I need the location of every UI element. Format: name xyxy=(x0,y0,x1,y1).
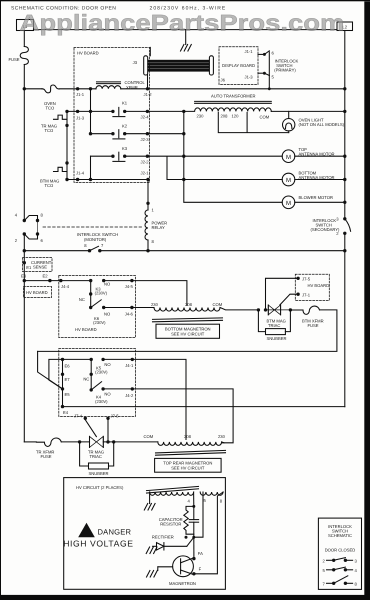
ground chassis at top xyxy=(181,30,192,51)
wire K3 row left xyxy=(91,155,113,157)
rectifier diode xyxy=(152,535,194,550)
thermal cutout TR MAG TCO chain top junction xyxy=(65,110,68,113)
wire row E3 E2 to J4-4 xyxy=(24,280,61,282)
junction xyxy=(89,306,92,309)
switch schematic contact 2-3 xyxy=(323,558,358,564)
wire control xfmr to J1-2 xyxy=(121,88,148,90)
svg-text:J7-1: J7-1 xyxy=(302,293,311,298)
wire K5 NO to pin J4-1 xyxy=(103,358,132,360)
wire J1-2 row to L2 rail xyxy=(148,88,345,90)
svg-text:NC: NC xyxy=(79,297,85,302)
wire J4-1 to 208 tap of top xfmr xyxy=(132,359,186,439)
wire strap to E5 xyxy=(38,351,63,389)
junction xyxy=(182,132,185,135)
junction xyxy=(123,110,126,113)
svg-text:(PRIMARY): (PRIMARY) xyxy=(274,68,296,73)
box HV CIRCUIT xyxy=(64,478,226,590)
junction xyxy=(344,582,347,585)
junction xyxy=(65,161,68,164)
pin J2-3 xyxy=(141,132,150,142)
svg-text:SEE HV CIRCUIT: SEE HV CIRCUIT xyxy=(171,466,205,471)
terminal E3 xyxy=(21,273,27,282)
svg-text:DISPLAY BOARD: DISPLAY BOARD xyxy=(222,63,255,68)
interlock switch primary xyxy=(263,51,299,80)
svg-text:MAGNETRON: MAGNETRON xyxy=(169,581,196,586)
svg-text:NO: NO xyxy=(104,312,111,317)
transformer top rear magnetron primary xyxy=(144,434,226,455)
switch schematic contact 7-8 open xyxy=(323,576,358,587)
svg-text:FUSE: FUSE xyxy=(41,454,52,459)
terminal E1 xyxy=(23,261,32,270)
wire L2 rail lower xyxy=(344,233,346,406)
wire J2-2 row to bus and jog xyxy=(147,156,183,179)
wire J1-1 to control xfmr xyxy=(78,88,96,90)
wire K3 NO to pin J4-5 xyxy=(104,280,132,282)
junction xyxy=(264,308,267,311)
svg-text:AUTO TRANSFORMER: AUTO TRANSFORMER xyxy=(211,93,255,98)
svg-text:FA: FA xyxy=(198,551,203,556)
svg-text:HV BOARD: HV BOARD xyxy=(75,327,97,332)
triac BTM MAG TRIAC xyxy=(257,305,292,328)
terminal E2 xyxy=(43,273,52,282)
junction xyxy=(101,358,104,361)
relay contact K5 changeover xyxy=(83,358,111,404)
switch monitor contact xyxy=(84,243,104,253)
svg-text:230: 230 xyxy=(151,302,159,307)
junction K3 feeder xyxy=(89,178,92,181)
svg-text:E2: E2 xyxy=(43,273,49,278)
svg-text:230: 230 xyxy=(218,434,226,439)
svg-text:NO: NO xyxy=(104,281,111,286)
wire display J1-3 to primary interlock xyxy=(258,72,264,74)
wire K1 row left xyxy=(67,110,113,112)
wire L1 rail current sense to xfmr fuse row xyxy=(23,281,25,442)
wire E column xyxy=(62,359,64,406)
svg-text:SNUBBER: SNUBBER xyxy=(89,471,109,476)
wire fuse to U turn down xyxy=(38,310,337,352)
switch schematic contact 5-4 xyxy=(323,567,358,573)
svg-text:SCHEMATIC: SCHEMATIC xyxy=(328,533,352,538)
svg-text:E5: E5 xyxy=(65,392,71,397)
terminal E4 xyxy=(61,405,69,415)
junction bus at K1 row xyxy=(182,110,185,113)
svg-text:NC: NC xyxy=(83,376,89,381)
wire J7-5 to fuse row xyxy=(107,418,109,442)
junction xyxy=(343,178,346,181)
wire F loop to filament 8 xyxy=(194,492,223,574)
svg-text:J4-2: J4-2 xyxy=(125,393,134,398)
wire triac to xfmr COM xyxy=(103,441,158,443)
svg-text:120: 120 xyxy=(232,114,240,119)
svg-text:COM: COM xyxy=(144,434,154,439)
pin J2-4 xyxy=(141,110,150,120)
svg-text:TRIAC: TRIAC xyxy=(90,454,102,459)
svg-text:J3: J3 xyxy=(133,60,138,65)
svg-text:J7-5: J7-5 xyxy=(302,277,311,282)
snubber network btm xyxy=(258,310,290,341)
wire J4-4 to K3 contact xyxy=(61,280,91,282)
snubber network tr xyxy=(80,442,114,476)
svg-text:208: 208 xyxy=(185,302,193,307)
transformer control XFMR primary xyxy=(96,80,145,90)
terminal FA xyxy=(192,551,203,560)
terminal E6 xyxy=(61,358,70,369)
pin J4-5 xyxy=(125,279,134,289)
node L2 xyxy=(337,22,353,31)
pin J1-3 (HV board) xyxy=(76,110,85,121)
wire L1 rail to J1-1 row xyxy=(23,65,25,89)
svg-text:AppliancePartsPros.com: AppliancePartsPros.com xyxy=(20,9,345,35)
wire K6 NO to pin J4-6 xyxy=(104,307,132,309)
junction xyxy=(106,440,109,443)
ribbon cable J3 to J6 xyxy=(148,60,210,72)
svg-text:230: 230 xyxy=(197,114,205,119)
thermal cutout TR MAG TCO xyxy=(41,111,67,133)
wire feeder drop J1-1 row to K1 K2 rows xyxy=(90,89,92,134)
board HV BOARD label box left xyxy=(24,287,52,298)
junction xyxy=(101,387,104,390)
junction xyxy=(343,249,346,252)
svg-text:J2-2: J2-2 xyxy=(141,159,150,164)
svg-text:NO: NO xyxy=(104,392,111,397)
junction xyxy=(343,201,346,204)
svg-text:J4-1: J4-1 xyxy=(125,363,134,368)
wire J2-3 to bus xyxy=(147,133,183,135)
svg-text:COM: COM xyxy=(260,114,270,119)
svg-text:HV BOARD: HV BOARD xyxy=(26,290,48,295)
svg-text:TCO: TCO xyxy=(45,183,55,188)
svg-text:TCO: TCO xyxy=(45,128,55,133)
board HV BOARD (top) xyxy=(74,47,150,182)
wire J7-5 to triac anode xyxy=(266,278,299,310)
svg-text:M: M xyxy=(286,154,291,161)
svg-text:K1: K1 xyxy=(122,100,128,105)
junction xyxy=(123,132,126,135)
ground HV secondary xyxy=(144,492,155,510)
svg-text:J2-1: J2-1 xyxy=(141,170,150,175)
svg-text:(230V): (230V) xyxy=(93,320,106,325)
svg-text:SNUBBER: SNUBBER xyxy=(267,336,287,341)
thermal cutout OVEN TCO xyxy=(42,85,59,110)
ground rectifier xyxy=(146,547,157,554)
transformer bottom magnetron primary xyxy=(151,302,223,322)
svg-text:ANTENNA MOTOR: ANTENNA MOTOR xyxy=(299,151,335,156)
wire J7-4 gate to triac xyxy=(85,420,96,437)
pin J4-2 xyxy=(125,387,134,398)
junction xyxy=(89,292,92,295)
junction xyxy=(289,308,292,311)
interlock switch secondary xyxy=(311,216,351,236)
relay contact K3 xyxy=(111,146,128,162)
junction xyxy=(78,440,81,443)
junction xyxy=(344,559,347,562)
junction xyxy=(343,232,346,235)
wire power relay drop xyxy=(147,180,149,211)
board HV BOARD (lower K5 K4) xyxy=(59,349,136,417)
svg-text:E3: E3 xyxy=(21,273,27,278)
interlock switch monitor xyxy=(15,213,119,243)
junction xyxy=(332,568,335,571)
pin J7-5 top xyxy=(106,414,119,420)
wire J1-4 row xyxy=(67,179,148,181)
junction feeder at x90.5 xyxy=(89,87,92,90)
junction xyxy=(90,388,93,391)
svg-text:BLOWER MOTOR: BLOWER MOTOR xyxy=(299,195,333,200)
junction L2 rail at row 88 xyxy=(343,87,346,90)
junction xyxy=(112,440,115,443)
wire K1 to pin J2-4 xyxy=(125,110,148,112)
wire row to oven tco xyxy=(24,88,42,90)
svg-text:HV BOARD: HV BOARD xyxy=(308,283,330,288)
wire bottom antenna row xyxy=(184,179,282,181)
pin J7-1 btm xyxy=(296,293,310,298)
wire top rail L1 to L2 xyxy=(34,29,338,31)
wire E4 row to L2 rail corner xyxy=(63,406,345,408)
pin J4-1 xyxy=(125,358,134,369)
wire J2-4 to xfmr bus xyxy=(147,110,183,112)
svg-text:FUSE: FUSE xyxy=(308,323,319,328)
junction xyxy=(98,249,101,252)
node L1 xyxy=(17,20,34,31)
junction xyxy=(102,306,105,309)
wire filament 5 lead xyxy=(194,492,203,537)
svg-text:NO: NO xyxy=(104,362,111,367)
wire blower row right xyxy=(295,201,345,203)
svg-text:E7: E7 xyxy=(65,377,71,382)
pin J1-4 xyxy=(76,170,85,181)
wire E6 jumper strap xyxy=(49,359,63,389)
svg-text:TRIAC: TRIAC xyxy=(268,323,280,328)
pin J4-6 xyxy=(125,306,134,317)
junction xyxy=(182,178,185,181)
svg-text:J4-4: J4-4 xyxy=(61,284,70,289)
wire J4-6 to bottom xfmr 230 end xyxy=(132,307,154,309)
svg-text:J4-6: J4-6 xyxy=(125,312,134,317)
motor M blower xyxy=(282,195,333,208)
wire node to magnetron FA xyxy=(193,537,195,558)
svg-text:208: 208 xyxy=(221,114,229,119)
wire K2 row left xyxy=(91,133,113,135)
box interlock switch schematic xyxy=(318,518,361,589)
capacitor HV xyxy=(159,506,199,537)
junction xyxy=(102,279,105,282)
node J1-2 xyxy=(144,87,153,97)
svg-text:M: M xyxy=(286,200,291,207)
warning danger high voltage xyxy=(63,523,133,549)
junction K1 row feeder xyxy=(89,110,92,113)
board HV BOARD (middle K3 K6) xyxy=(59,276,136,338)
svg-text:(MONITOR): (MONITOR) xyxy=(84,237,107,242)
pin J2-1 xyxy=(141,170,150,181)
svg-text:J1-1: J1-1 xyxy=(76,92,85,97)
wire J4-5 to 208 tap of bottom xfmr xyxy=(132,281,187,306)
svg-text:E6: E6 xyxy=(65,364,71,369)
mechanical linkage dashed xyxy=(43,226,142,228)
junction xyxy=(90,373,93,376)
svg-text:(NOT ON ALL MODELS): (NOT ON ALL MODELS) xyxy=(299,122,345,127)
junction xyxy=(332,559,335,562)
wire fuse to triac xyxy=(61,441,89,443)
fuse F1 xyxy=(9,47,29,65)
connector J6 bracket xyxy=(209,56,213,75)
svg-text:DOOR CLOSED: DOOR CLOSED xyxy=(325,548,356,553)
junction xyxy=(343,110,346,113)
svg-text:J6: J6 xyxy=(221,78,226,83)
pin J1-1 (HV board) xyxy=(76,87,85,97)
junction xyxy=(332,582,335,585)
terminal F xyxy=(192,567,201,576)
magnetron V1 xyxy=(158,556,196,586)
svg-text:SENSE: SENSE xyxy=(33,264,47,269)
relay coil POWER RELAY xyxy=(145,202,167,244)
resistor bleed xyxy=(184,506,194,538)
wire bottom xfmr COM to triac row xyxy=(220,308,258,310)
wire K2 to pin J2-3 xyxy=(125,133,148,135)
board HV BOARD (btm triac driver) xyxy=(295,274,329,300)
wire J4-2 to 230 end of top xfmr xyxy=(132,389,233,443)
ground magnetron xyxy=(147,567,158,577)
svg-text:J2-3: J2-3 xyxy=(141,137,150,142)
wire J1-2 stub to ribbon J3 xyxy=(147,75,149,89)
junction xyxy=(23,232,26,235)
svg-text:E4: E4 xyxy=(63,410,69,415)
svg-text:J1-3: J1-3 xyxy=(76,115,85,120)
svg-text:J1-2: J1-2 xyxy=(144,92,153,97)
svg-text:E1: E1 xyxy=(26,265,32,270)
wire L2 rail upper xyxy=(344,31,346,219)
junction xyxy=(36,219,39,222)
display board U2 xyxy=(219,47,258,85)
wire oven tco to J1-1 xyxy=(59,88,77,90)
svg-text:K3: K3 xyxy=(122,146,128,151)
wire K4 NO to pin J4-2 xyxy=(103,388,132,390)
triac TR MAG TRIAC xyxy=(88,436,104,459)
relay contact K1 xyxy=(111,100,128,116)
wire J7-1 gate to triac xyxy=(280,294,298,305)
pin J7-4 xyxy=(74,414,87,420)
box top rear magnetron note xyxy=(155,458,222,472)
transformer auto transformer primary xyxy=(184,93,271,119)
junction xyxy=(65,124,68,127)
junction xyxy=(123,155,126,158)
relay contact K2 xyxy=(111,123,128,139)
terminal E5 xyxy=(61,387,70,397)
wire L1 rail corner to fuse row xyxy=(24,441,36,443)
wire L1 rail to monitor switch xyxy=(23,89,25,221)
motor M top antenna xyxy=(282,147,334,163)
svg-text:TCO: TCO xyxy=(46,105,56,110)
svg-text:(230V): (230V) xyxy=(95,399,108,404)
pin J2-2 xyxy=(141,155,150,165)
wire xfmr bus vertical xyxy=(183,111,185,179)
wire top antenna row xyxy=(184,155,282,157)
fuse BTM XFMR FUSE xyxy=(290,306,323,328)
svg-text:RESISTOR: RESISTOR xyxy=(160,522,181,527)
svg-text:J1-4: J1-4 xyxy=(76,170,85,175)
junction xyxy=(182,155,185,158)
wire L1 rail upper xyxy=(23,31,25,47)
svg-text:FUSE: FUSE xyxy=(9,57,20,62)
svg-text:(SECONDARY): (SECONDARY) xyxy=(311,227,341,232)
wire K3 feeder up xyxy=(90,156,92,179)
relay contact K3 changeover xyxy=(79,279,111,325)
lamp oven light xyxy=(283,111,345,132)
svg-text:(230V): (230V) xyxy=(95,291,108,296)
fuse TR XFMR FUSE xyxy=(36,438,61,459)
wire secondary to node xyxy=(193,492,195,506)
svg-text:J2-4: J2-4 xyxy=(141,115,150,120)
svg-text:RELAY: RELAY xyxy=(152,225,166,230)
wire tco chain mid xyxy=(66,125,68,163)
transformer filament winding xyxy=(200,492,223,495)
current sense board xyxy=(23,258,53,272)
pin J4-4 xyxy=(59,279,70,289)
svg-text:HV CIRCUIT (2 PLACES): HV CIRCUIT (2 PLACES) xyxy=(76,485,124,490)
box bottom magnetron note xyxy=(156,324,220,338)
wire E6 to K5 xyxy=(63,358,92,360)
pin J7-5 btm xyxy=(296,277,310,282)
svg-text:J4-5: J4-5 xyxy=(125,284,134,289)
terminal E7 xyxy=(61,373,70,382)
svg-text:HV BOARD: HV BOARD xyxy=(77,51,99,56)
transformer HV secondary xyxy=(147,486,199,495)
junction xyxy=(344,568,347,571)
wire xfmr output to L2 rail xyxy=(271,110,345,112)
junction xyxy=(146,249,149,252)
wire primary interlock down to row 88 xyxy=(268,75,270,88)
wire display J1-1 to primary interlock xyxy=(258,53,264,55)
svg-text:SEE HV CIRCUIT: SEE HV CIRCUIT xyxy=(171,332,205,337)
wire relay to monitor row xyxy=(147,240,149,251)
wire xfmr tap drops to lamp bus xyxy=(218,112,288,132)
wire L1 rail monitor to current sense xyxy=(23,234,25,281)
svg-text:M: M xyxy=(286,177,291,184)
svg-text:J7-5: J7-5 xyxy=(111,414,120,419)
svg-text:(230V): (230V) xyxy=(95,370,108,375)
svg-text:HIGH VOLTAGE: HIGH VOLTAGE xyxy=(63,538,133,548)
thermal cutout BTM MAG TCO xyxy=(40,163,67,188)
motor M bottom antenna xyxy=(282,171,334,186)
svg-text:J7-4: J7-4 xyxy=(74,414,83,419)
wire bus down to blower row xyxy=(184,180,282,203)
svg-text:DANGER: DANGER xyxy=(98,528,132,537)
junction xyxy=(343,155,346,158)
svg-text:RECTIFIER: RECTIFIER xyxy=(152,535,174,540)
junction xyxy=(89,132,92,135)
junction xyxy=(65,178,68,181)
junction xyxy=(36,232,39,235)
junction on L1 rail at oven tco row xyxy=(23,87,26,90)
svg-text:COM: COM xyxy=(213,302,223,307)
svg-text:208: 208 xyxy=(184,434,192,439)
wire K3 to pin J2-2 xyxy=(125,155,148,157)
svg-text:J1-1: J1-1 xyxy=(245,49,254,54)
wire monitor contact row xyxy=(23,249,345,252)
svg-text:K2: K2 xyxy=(122,123,128,128)
svg-text:J1-3: J1-3 xyxy=(245,75,254,80)
